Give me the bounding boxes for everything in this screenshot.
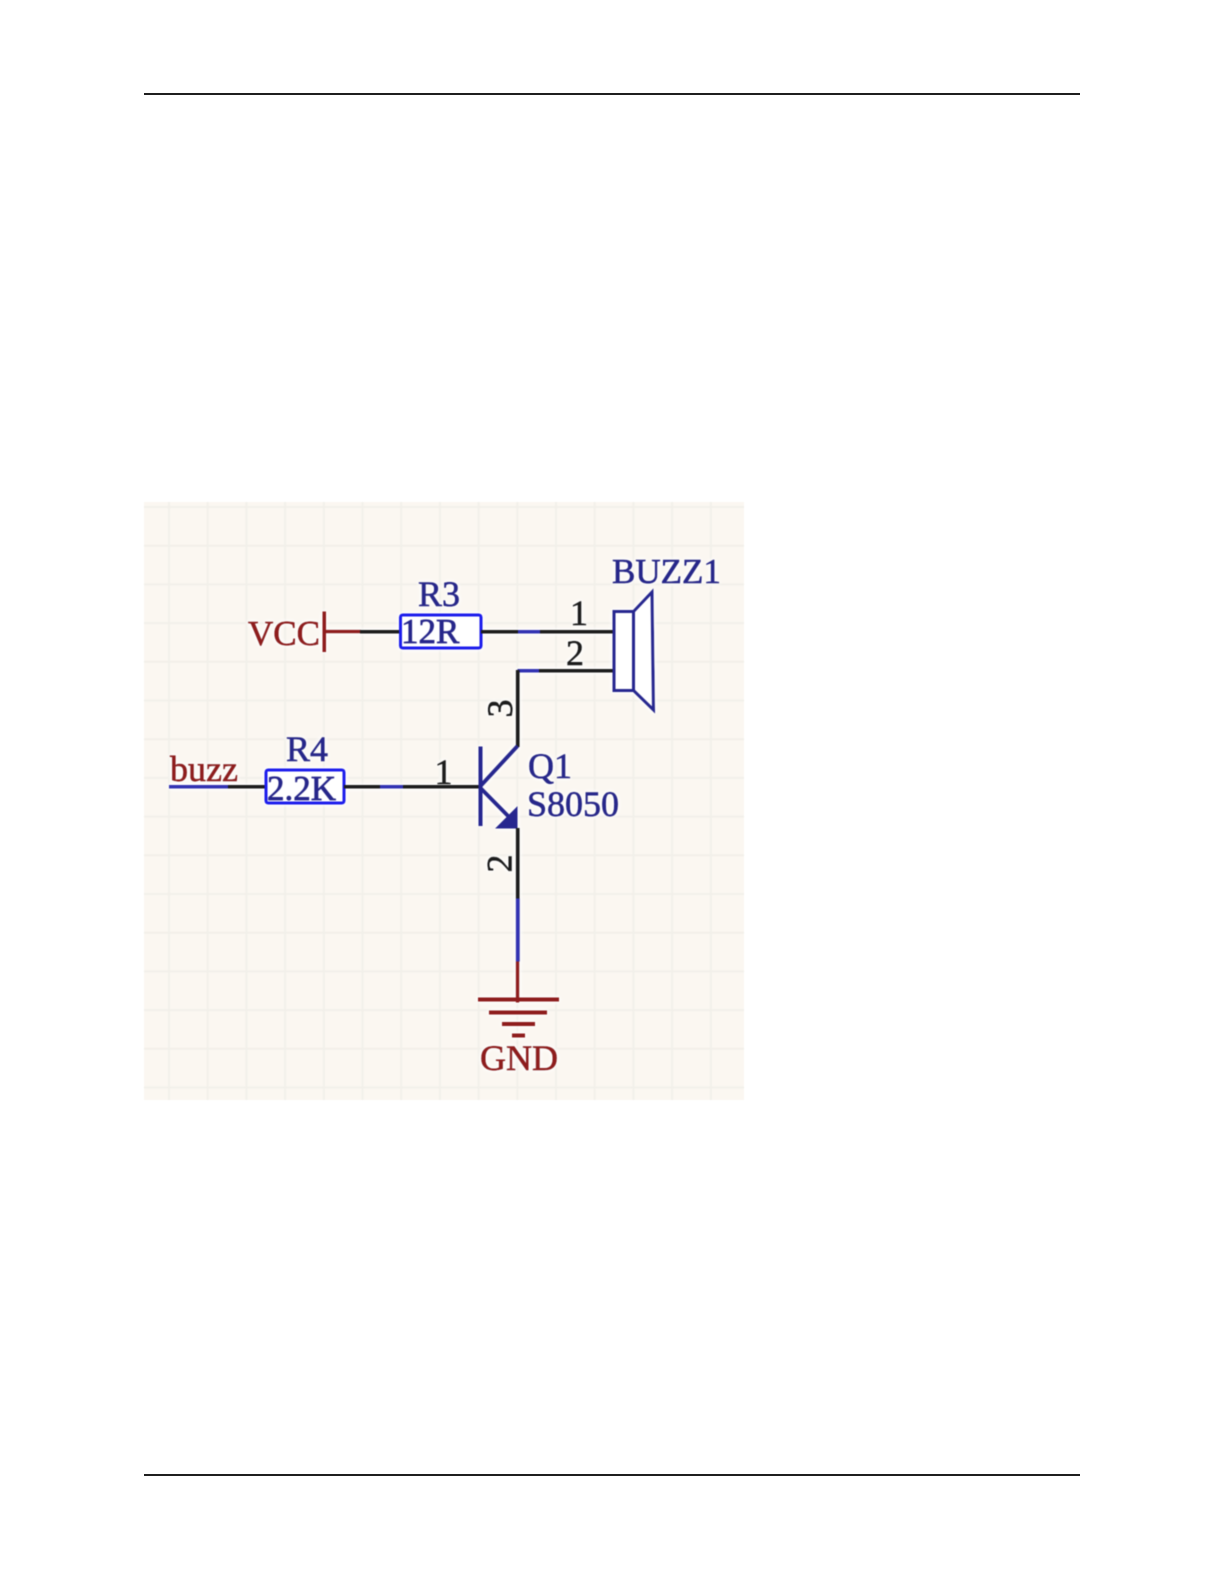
wire emitter (blue) [516,899,520,962]
top rule [144,93,1080,95]
svg-text:buzz: buzz [170,749,238,789]
svg-text:Q1: Q1 [528,746,572,786]
schematic background [144,502,744,1100]
wire to ground (red stub) [516,962,520,1003]
wire emitter vertical (black) [516,828,520,899]
wire to Q1 base [403,785,479,789]
resistor R3 body [401,615,482,648]
svg-text:3: 3 [480,700,520,718]
svg-text:12R: 12R [401,612,460,651]
wire segment (blue pin stub pin 2) [518,669,540,673]
power port VCC bar symbol [323,612,327,653]
wire R4 to Q1 base (black) [344,785,380,789]
svg-text:GND: GND [480,1038,558,1078]
resistor R4 body [266,770,344,803]
wire segment (blue pin stub base) [380,785,403,789]
wire collector vertical [516,670,520,747]
svg-text:1: 1 [435,752,453,792]
buzzer BUZZ1 symbol [614,592,654,710]
svg-text:BUZZ1: BUZZ1 [612,552,721,591]
svg-text:VCC: VCC [248,614,320,653]
svg-text:2: 2 [566,633,584,673]
wire buzz to R4 [228,785,266,789]
wire VCC (red stub) [324,630,361,634]
svg-text:1: 1 [570,593,588,633]
wire R3 to buzzer pin 1 (black) [481,630,518,634]
svg-text:R4: R4 [286,729,328,769]
wire segment (blue pin stub) [518,630,540,634]
svg-text:S8050: S8050 [527,784,619,824]
schematic image [144,502,744,1100]
wire buzz (blue) [169,785,228,789]
wire VCC to R3 [360,630,401,634]
svg-text:2.2K: 2.2K [267,769,336,808]
transistor Q1 symbol [479,746,518,829]
svg-text:2: 2 [480,855,520,873]
wire to buzzer pin 1 [540,630,615,634]
bottom rule [144,1474,1080,1476]
wire buzzer pin 2 [539,669,615,673]
svg-text:R3: R3 [418,574,460,614]
ground symbol [478,998,559,1038]
